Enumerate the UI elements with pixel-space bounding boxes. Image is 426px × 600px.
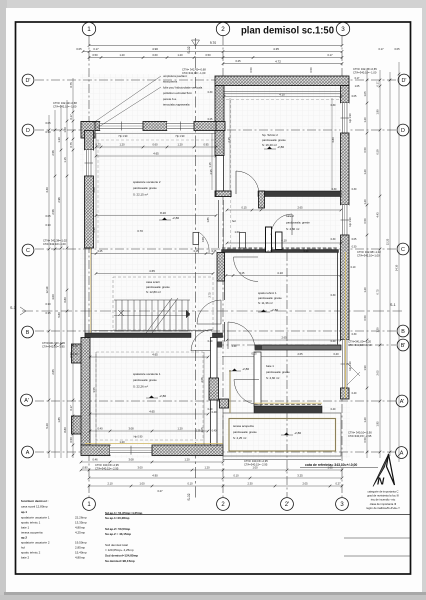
wall: axis 3 segment C-B: [341, 235, 350, 340]
svg-text:2.65: 2.65: [51, 369, 55, 375]
svg-text:Hp 1.90: Hp 1.90: [119, 135, 128, 138]
svg-text:2,85mp: 2,85mp: [75, 546, 85, 550]
yellow highlight on axis 3 wall: [345, 252, 347, 398]
svg-text:A: A: [400, 451, 404, 457]
yellow + dash above A wall: [85, 443, 223, 445]
wall: spalatorie1 east wall pier: [209, 378, 219, 400]
svg-text:1.20: 1.20: [119, 440, 125, 444]
svg-text:spatiu tehnic 1: spatiu tehnic 1: [258, 291, 277, 295]
svg-text:0.05: 0.05: [45, 121, 51, 125]
svg-text:Su ap.2 = 43,15mp: Su ap.2 = 43,15mp: [105, 532, 131, 536]
svg-text:1.30: 1.30: [57, 137, 61, 143]
svg-text:0.30: 0.30: [331, 104, 336, 107]
svg-text:0.27: 0.27: [335, 482, 341, 486]
axis circle A left: [22, 446, 34, 458]
svg-text:plan demisol sc.1:50: plan demisol sc.1:50: [241, 26, 334, 37]
svg-text:CTN= 342,42=-0,68: CTN= 342,42=-0,68: [182, 68, 206, 72]
svg-text:2.86: 2.86: [92, 187, 96, 193]
svg-text:1.85: 1.85: [57, 417, 61, 423]
interior dims sp tehnic 2: [224, 96, 341, 98]
svg-text:0.25: 0.25: [194, 250, 199, 253]
svg-text:0.05: 0.05: [394, 47, 400, 51]
svg-text:1: 1: [87, 26, 91, 33]
svg-text:0.80: 0.80: [82, 466, 88, 470]
svg-text:0.17: 0.17: [355, 77, 360, 80]
svg-text:0.50: 0.50: [92, 53, 98, 57]
svg-text:0.17: 0.17: [69, 405, 73, 411]
svg-text:CTA=342,10= -1,90: CTA=342,10= -1,90: [348, 343, 372, 347]
svg-text:0.40: 0.40: [97, 427, 103, 431]
svg-text:hol: hol: [232, 219, 236, 223]
svg-text:spalatorie uscatorie 2: spalatorie uscatorie 2: [133, 180, 161, 184]
svg-text:1.20: 1.20: [363, 117, 367, 123]
dim row under B' wall: [222, 356, 341, 358]
svg-text:hol: hol: [21, 546, 25, 550]
svg-text:0.50: 0.50: [363, 147, 367, 153]
svg-text:B: B: [401, 329, 405, 335]
svg-text:4,80mp: 4,80mp: [75, 556, 85, 560]
axis circle C right: [397, 243, 409, 255]
svg-text:9.70: 9.70: [210, 41, 216, 45]
svg-text:12.30: 12.30: [45, 286, 49, 293]
svg-text:regim de inaltime/D+P+E+<!: regim de inaltime/D+P+E+<!: [366, 506, 400, 510]
svg-text:0.50: 0.50: [363, 315, 367, 321]
svg-text:Hp 1.90: Hp 1.90: [176, 135, 185, 138]
svg-text:0.10: 0.10: [351, 266, 356, 269]
window in axis D wall (west): [100, 122, 143, 131]
svg-text:0.80: 0.80: [63, 297, 67, 303]
svg-text:0.17: 0.17: [93, 47, 99, 51]
svg-text:S-02: S-02: [187, 493, 191, 500]
svg-text:0.17: 0.17: [327, 53, 333, 57]
wall: axis 2 / axis D junction pier: [216, 122, 226, 131]
svg-text:0.59: 0.59: [376, 149, 380, 155]
svg-text:baie 2: baie 2: [21, 556, 30, 560]
svg-text:-2,80: -2,80: [172, 216, 179, 220]
axis circle 2 bottom: [217, 498, 230, 511]
svg-text:0.50: 0.50: [205, 53, 211, 57]
svg-text:0.30: 0.30: [45, 130, 51, 134]
svg-text:CTN= 340,10=-2,90: CTN= 340,10=-2,90: [348, 431, 372, 435]
svg-text:1.90: 1.90: [363, 365, 367, 371]
svg-text:0.30: 0.30: [352, 333, 357, 336]
svg-text:CTA=342,10= -1,00: CTA=342,10= -1,00: [182, 71, 206, 75]
svg-text:1.05: 1.05: [355, 85, 360, 88]
dashed beam rect spalatorie 1: [96, 352, 203, 440]
svg-text:categorie de importanta C: categorie de importanta C: [368, 490, 399, 494]
svg-text:CTA=340,10= -1,00: CTA=340,10= -1,00: [353, 71, 377, 75]
svg-text:S: 4,60 m²: S: 4,60 m²: [266, 376, 279, 380]
svg-text:2.05: 2.05: [302, 482, 308, 486]
svg-text:4.40: 4.40: [45, 187, 49, 193]
svg-text:2': 2': [285, 502, 289, 508]
svg-text:4.43: 4.43: [376, 212, 380, 218]
svg-text:cota de referinta= 343,10=+/-0: cota de referinta= 343,10=+/-0,00: [305, 463, 357, 467]
svg-text:D': D': [26, 78, 31, 84]
axis circle A right: [396, 447, 408, 459]
axis circle 2' bottom: [281, 498, 294, 511]
door arc: hol to spalatorie 1 (B' wall): [227, 322, 229, 349]
svg-text:12.25: 12.25: [386, 238, 390, 245]
wall: axis 2 thin segment above C: [218, 200, 220, 248]
svg-text:pardoseala: gresie: pardoseala: gresie: [266, 370, 290, 374]
svg-text:N: N: [377, 477, 385, 488]
svg-text:0.40: 0.40: [333, 352, 339, 356]
axis circle D left: [22, 124, 34, 136]
wall: axis D pier east: [194, 122, 216, 131]
svg-text:S: 11,36 m²: S: 11,36 m²: [258, 301, 273, 305]
svg-text:D: D: [401, 128, 405, 134]
wall: baie 1 south (solid): [254, 406, 322, 413]
svg-text:casa scarii 12,80mp: casa scarii 12,80mp: [21, 505, 48, 509]
svg-text:0.17: 0.17: [378, 47, 384, 51]
svg-text:0.40: 0.40: [208, 408, 213, 411]
svg-text:B': B': [401, 343, 406, 349]
wall: baie 1 west wall: [254, 352, 261, 406]
svg-text:0.60: 0.60: [152, 53, 158, 57]
svg-text:baie 1: baie 1: [266, 364, 274, 368]
axis circle B right: [397, 325, 409, 337]
svg-text:S: 4,25 m²: S: 4,25 m²: [233, 436, 246, 440]
svg-text:2.75: 2.75: [208, 292, 212, 298]
svg-text:2.56: 2.56: [51, 209, 55, 215]
svg-text:0.05: 0.05: [352, 95, 357, 98]
svg-text:0.30: 0.30: [45, 223, 51, 227]
svg-text:2: 2: [221, 26, 225, 33]
svg-text:terasa acoperita: terasa acoperita: [21, 531, 43, 535]
interior dims big room north: [96, 146, 216, 148]
wall: exterior pier west at A': [72, 416, 82, 434]
svg-text:4.65: 4.65: [153, 152, 159, 156]
svg-text:S: 16,40 m²: S: 16,40 m²: [262, 143, 277, 147]
svg-text:CTN= 342,45=-0,65: CTN= 342,45=-0,65: [353, 67, 377, 71]
svg-text:1.20: 1.20: [184, 458, 190, 462]
svg-text:B: B: [26, 330, 30, 336]
axis circle 1 bottom: [83, 498, 96, 511]
svg-text:22,26mp: 22,26mp: [75, 516, 87, 520]
svg-text:2.56: 2.56: [51, 150, 55, 156]
svg-text:1.20: 1.20: [177, 427, 183, 431]
svg-text:0.10: 0.10: [187, 482, 193, 486]
wall: west wall upper segment: [85, 131, 94, 151]
svg-text:1.20: 1.20: [119, 53, 125, 57]
svg-text:1.05: 1.05: [200, 427, 204, 433]
wall: dividing wall hatched part: [217, 253, 225, 282]
svg-text:4,25mp: 4,25mp: [75, 531, 85, 535]
interior dims spatiu tehnic 1: [226, 275, 341, 277]
section line S-02: [195, 38, 197, 499]
svg-text:0.10: 0.10: [233, 474, 239, 478]
svg-text:pardoseala: gresie: pardoseala: gresie: [286, 221, 310, 225]
svg-text:0.40: 0.40: [212, 411, 217, 414]
svg-text:S: 22,26 m²: S: 22,26 m²: [133, 384, 148, 388]
svg-text:0.40: 0.40: [352, 392, 357, 395]
svg-text:0.35: 0.35: [45, 311, 51, 315]
yellow highlight line lobby/terasa west: [229, 370, 231, 413]
axis circle B left: [22, 326, 34, 338]
svg-text:0.17: 0.17: [376, 81, 380, 87]
svg-text:3.08: 3.08: [128, 427, 134, 431]
svg-text:C: C: [26, 248, 30, 254]
svg-text:0.27: 0.27: [157, 489, 163, 493]
svg-text:A: A: [26, 450, 30, 456]
svg-text:Sp. Tehnic 2: Sp. Tehnic 2: [262, 133, 278, 137]
window in axis 3 wall (lower): [341, 340, 350, 388]
svg-text:1.20: 1.20: [177, 143, 183, 147]
svg-text:0.50: 0.50: [363, 437, 367, 443]
wall: axis 2 white-cored segment: [216, 156, 224, 192]
door arc: baie 1: [234, 379, 259, 381]
svg-text:ap.2: ap.2: [21, 536, 27, 540]
svg-text:-2,80: -2,80: [242, 367, 249, 371]
wall: axis A pier east: [152, 445, 223, 456]
svg-text:4.10: 4.10: [277, 271, 283, 275]
wall: axis B' east segment: [255, 345, 341, 350]
svg-text:Sd ap.1= 51,65mp=4,25mp: Sd ap.1= 51,65mp=4,25mp: [105, 511, 143, 515]
window in axis 3 wall (upper): [341, 103, 350, 133]
wall: axis D corner pier west: [81, 122, 100, 131]
window Hp 0.90 in axis A wall: [110, 446, 152, 455]
svg-text:Su ap.1=40,28mp: Su ap.1=40,28mp: [105, 516, 130, 520]
door arc: casa scarii south wall to spalatorie 1: [191, 350, 213, 352]
window in axis 3 wall (baie 2): [341, 205, 350, 235]
svg-text:4.10: 4.10: [281, 239, 287, 243]
terasa acoperita outline: [223, 413, 341, 456]
window in axis D wall (east): [167, 122, 194, 131]
svg-text:0.60: 0.60: [152, 143, 158, 147]
svg-text:D: D: [26, 128, 30, 134]
svg-text:Scd demisol total: Scd demisol total: [105, 543, 128, 547]
wall: axis D pier middle: [143, 122, 167, 131]
svg-text:ap.1: ap.1: [21, 510, 27, 514]
svg-text:clasa de importanta III: clasa de importanta III: [370, 502, 397, 506]
hatch dash row above baie1 south wall: [254, 403, 322, 405]
svg-text:polistiren extrudat 5cm: polistiren extrudat 5cm: [163, 91, 193, 95]
svg-text:0.46: 0.46: [92, 458, 98, 462]
svg-text:pardoseala: gresie: pardoseala: gresie: [133, 186, 157, 190]
svg-text:4,80mp: 4,80mp: [75, 526, 85, 530]
svg-text:perete b.a.: perete b.a.: [163, 97, 177, 101]
bottom right small lines: [344, 537, 410, 539]
wall: interior wall y191 (sp.tehnic2 south): [258, 191, 341, 197]
svg-text:spalatorie uscatorie 1: spalatorie uscatorie 1: [21, 516, 50, 520]
svg-text:4.80: 4.80: [331, 137, 335, 143]
axis circle B' right: [397, 339, 409, 351]
svg-text:0.30: 0.30: [352, 188, 357, 191]
svg-text:CTA=342,10=-1,00: CTA=342,10=-1,00: [43, 242, 66, 246]
svg-text:1.05: 1.05: [363, 91, 367, 97]
svg-text:C: C: [401, 247, 405, 253]
step block at lobby to terasa: [220, 399, 229, 408]
svg-text:1.20: 1.20: [363, 287, 367, 293]
svg-text:2.35: 2.35: [227, 137, 231, 143]
faint scan grid over plan area: [80, 74, 350, 458]
svg-text:19,50mp: 19,50mp: [75, 541, 87, 545]
svg-text:2.65: 2.65: [281, 336, 287, 340]
svg-text:0.50: 0.50: [309, 67, 313, 73]
svg-text:0.05: 0.05: [76, 47, 82, 51]
svg-text:-2,80: -2,80: [159, 394, 166, 398]
svg-text:3.55: 3.55: [92, 387, 96, 393]
svg-text:1.00: 1.00: [63, 127, 67, 133]
door arc: casa scarii to hol: [197, 300, 221, 324]
svg-text:Hp 0.90: Hp 0.90: [134, 436, 143, 439]
svg-text:-2,80: -2,80: [271, 308, 278, 312]
svg-text:S-02: S-02: [187, 46, 191, 53]
axis circle D' left: [22, 74, 34, 86]
svg-text:8.20: 8.20: [160, 211, 166, 215]
svg-text:0.30: 0.30: [352, 246, 357, 249]
svg-text:2.56: 2.56: [200, 377, 204, 383]
door arc: hol to sp.tehnic 2: [235, 171, 237, 194]
svg-text:0.73: 0.73: [95, 143, 101, 147]
axis circle D' right: [398, 74, 410, 86]
window splay lines right wall: [347, 363, 360, 376]
svg-text:5.80: 5.80: [57, 312, 61, 318]
svg-text:1.20: 1.20: [363, 199, 367, 205]
svg-text:1.15: 1.15: [63, 157, 67, 163]
svg-text:1.20: 1.20: [363, 169, 367, 175]
door arc: sp.tehnic 1 at axis C: [234, 256, 259, 258]
wall: axis C wall (dark band with hatch dashes above): [222, 247, 339, 249]
bottom dimension chains: [81, 461, 223, 463]
dashed slab edge line in hol: [230, 100, 232, 248]
svg-text:4.65: 4.65: [152, 353, 158, 357]
svg-text:2.96: 2.96: [57, 197, 61, 203]
svg-text:casa scarii: casa scarii: [146, 280, 160, 284]
svg-text:0.40: 0.40: [72, 352, 78, 356]
axis circle A' left: [21, 394, 33, 406]
svg-text:0.50: 0.50: [69, 437, 73, 443]
axis circle C left: [22, 244, 34, 256]
axis circle 2 top: [216, 22, 229, 35]
svg-text:2.40: 2.40: [232, 345, 237, 348]
svg-text:pardoseala: gresie: pardoseala: gresie: [133, 378, 157, 382]
axis grid dashed lines: [88, 36, 90, 497]
svg-text:0.40: 0.40: [304, 250, 309, 253]
svg-text:0.75: 0.75: [69, 82, 73, 88]
window in west wall: [85, 150, 94, 176]
svg-text:4.65: 4.65: [149, 410, 155, 414]
interior dims baie2/hol: [227, 209, 341, 211]
svg-text:Hp 1.90: Hp 1.90: [348, 217, 352, 227]
axis circle A' right: [396, 395, 408, 407]
svg-text:2.30: 2.30: [247, 482, 253, 486]
svg-text:0.30: 0.30: [45, 302, 51, 306]
wall: axis 3 segment at B': [341, 388, 350, 399]
svg-text:S-1: S-1: [10, 306, 16, 310]
svg-text:baie 1: baie 1: [21, 526, 30, 530]
svg-text:0.75: 0.75: [376, 289, 380, 295]
wall: spalatorie1 east wall: [211, 338, 218, 446]
svg-text:0.15: 0.15: [241, 206, 247, 210]
svg-text:folie pvc/ hidroizolatie verti: folie pvc/ hidroizolatie verticala: [163, 85, 203, 89]
wall: axis 3 segment D'-window: [341, 86, 350, 104]
svg-text:S-1: S-1: [390, 303, 396, 307]
svg-text:0.50: 0.50: [249, 67, 253, 73]
svg-text:CTN= 340,15=-2,95: CTN= 340,15=-2,95: [95, 463, 119, 467]
svg-text:CTA=340,15= -2,95: CTA=340,15= -2,95: [348, 434, 372, 438]
svg-text:2.35: 2.35: [209, 169, 213, 175]
wall: axis 3 segment mid: [341, 133, 350, 205]
svg-text:0.30: 0.30: [92, 227, 96, 233]
svg-text:3.00: 3.00: [51, 294, 55, 300]
svg-text:0.25: 0.25: [208, 118, 213, 121]
door arc: shaft door casa scarii top: [199, 232, 210, 253]
dashed beam line sp tehnic 2: [226, 99, 340, 101]
svg-text:4.35: 4.35: [273, 47, 279, 51]
dashed beam outline casa scarii: [113, 277, 213, 330]
svg-text:0.10: 0.10: [72, 344, 78, 348]
dim row casa scarii north: [91, 253, 213, 255]
svg-text:pardoseala: gresie: pardoseala: gresie: [146, 285, 170, 289]
wall: exterior pier west at B': [72, 344, 82, 363]
svg-text:0.30: 0.30: [331, 294, 336, 297]
svg-text:1.20: 1.20: [177, 53, 183, 57]
svg-text:-2,80: -2,80: [294, 431, 301, 435]
wall: axis B retaining wall west (solid): [85, 333, 191, 338]
interior vertical dim lines: [95, 133, 97, 248]
svg-text:tencuiala zugraveala: tencuiala zugraveala: [163, 103, 190, 107]
svg-text:1.00: 1.00: [139, 482, 145, 486]
north arrow: [373, 454, 389, 487]
svg-text:Hp 1.90: Hp 1.90: [348, 113, 352, 123]
svg-text:CTN= 342,08=-1,02: CTN= 342,08=-1,02: [357, 250, 381, 254]
svg-text:2.65: 2.65: [297, 206, 303, 210]
svg-text:0.40: 0.40: [331, 340, 336, 343]
interior dims spalatorie 1: [90, 356, 208, 358]
svg-text:0.05: 0.05: [352, 238, 357, 241]
svg-text:baie 2: baie 2: [286, 214, 294, 218]
svg-text:pardoseala: gresie: pardoseala: gresie: [258, 296, 282, 300]
svg-text:1.60: 1.60: [234, 230, 240, 234]
svg-text:S: 4,60 m²: S: 4,60 m²: [286, 227, 299, 231]
ventilation shaft 2: [240, 233, 246, 249]
svg-text:spatiu tehnic 1: spatiu tehnic 1: [21, 521, 41, 525]
svg-text:D': D': [402, 78, 407, 84]
svg-text:0.35: 0.35: [268, 250, 273, 253]
svg-text:0.90: 0.90: [202, 237, 205, 242]
svg-text:CTN=341,00=-1,20: CTN=341,00=-1,20: [348, 340, 372, 344]
ventilation shaft 1: [193, 233, 199, 245]
axis circle 1 top: [82, 22, 95, 35]
svg-text:pardoseala: gresie: pardoseala: gresie: [233, 430, 257, 434]
svg-text:2.10: 2.10: [107, 482, 113, 486]
svg-text:1.20: 1.20: [376, 327, 380, 333]
wall: north wall on axis D' (sp. tehnic 2): [215, 76, 349, 86]
axis circle D right: [397, 124, 409, 136]
svg-text:2.65: 2.65: [297, 352, 303, 356]
svg-text:0.95: 0.95: [203, 143, 209, 147]
svg-text:= 120,65mp+ 4,25mp: = 120,65mp+ 4,25mp: [105, 548, 134, 552]
svg-text:1.80: 1.80: [376, 109, 380, 115]
svg-text:5.20: 5.20: [45, 423, 49, 429]
svg-text:3.70: 3.70: [137, 229, 143, 233]
svg-text:0.25: 0.25: [98, 250, 103, 253]
west wall thin part along casa scarii: [84, 248, 86, 338]
svg-text:1.85: 1.85: [206, 217, 210, 223]
separator line above title strip: [105, 514, 410, 516]
door arc: baie 2: [291, 214, 293, 235]
svg-text:15,40mp: 15,40mp: [75, 551, 87, 555]
wall: axis 2 corner pier at hol: [215, 191, 231, 197]
svg-text:0.30: 0.30: [331, 238, 336, 241]
svg-text:3.25: 3.25: [297, 474, 303, 478]
svg-text:1.15: 1.15: [208, 162, 212, 168]
svg-text:spatiu tehnic 2: spatiu tehnic 2: [21, 551, 41, 555]
svg-text:0.30: 0.30: [332, 188, 337, 191]
svg-text:3.00: 3.00: [137, 466, 143, 470]
